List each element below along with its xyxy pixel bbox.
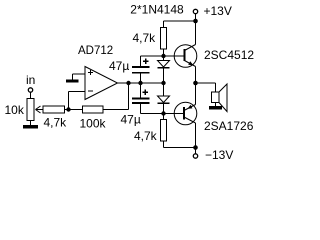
svg-text:2*1N4148: 2*1N4148 xyxy=(130,3,184,17)
diode D1 1N4148 xyxy=(163,56,165,61)
wire inverting node xyxy=(65,109,83,111)
terminal -13V xyxy=(193,154,197,158)
wire cap C1 top link xyxy=(140,56,142,67)
node upper bias xyxy=(161,54,165,58)
svg-text:47µ: 47µ xyxy=(121,113,141,127)
svg-text:in: in xyxy=(26,73,35,87)
wire feedback xyxy=(103,83,129,110)
svg-text:10k: 10k xyxy=(5,103,25,117)
svg-text:2SA1726: 2SA1726 xyxy=(204,119,254,133)
op-amp plus marker xyxy=(88,70,93,75)
svg-text:4,7k: 4,7k xyxy=(133,31,157,45)
wire speaker to ground xyxy=(215,103,217,107)
svg-text:100k: 100k xyxy=(80,117,107,131)
node diode midpoint xyxy=(161,81,165,85)
svg-text:AD712: AD712 xyxy=(78,45,113,57)
wire input stub xyxy=(30,92,32,98)
op-amp minus marker xyxy=(88,90,93,92)
node capacitor tap xyxy=(138,81,142,85)
wire cap C2 top lead xyxy=(140,83,142,99)
transistor Q1 2SC4512 NPN xyxy=(174,45,197,68)
resistor 4,7k (input) xyxy=(43,106,65,113)
svg-text:47µ: 47µ xyxy=(109,59,129,73)
wire pot to ground xyxy=(30,121,32,126)
node output emitters junction xyxy=(193,81,198,86)
wire upper base line xyxy=(141,55,185,57)
svg-text:2SC4512: 2SC4512 xyxy=(204,48,254,62)
node feedback tap xyxy=(126,81,130,85)
capacitor C1 polarity plus xyxy=(143,59,148,64)
node inverting input junction xyxy=(66,107,70,111)
potentiometer wiper arrow xyxy=(36,109,43,111)
resistor 100k (feedback) xyxy=(83,106,104,113)
wire Q1 collector xyxy=(195,21,197,45)
svg-text:4,7k: 4,7k xyxy=(134,129,158,143)
wire op-amp output line xyxy=(118,82,164,84)
svg-text:+13V: +13V xyxy=(204,4,232,18)
op-amp U1 AD712 triangle xyxy=(85,67,118,100)
resistor 4,7k upper bias xyxy=(161,28,167,50)
ground (op-amp non-inverting input) xyxy=(67,80,79,82)
resistor 4,7k lower bias xyxy=(161,120,167,142)
ground (pot) xyxy=(24,126,38,128)
wire Q1 emitter to output node xyxy=(195,67,197,84)
wire Q2 emitter xyxy=(195,83,197,105)
input terminal (in) xyxy=(28,88,32,92)
wire output to speaker xyxy=(196,83,216,92)
ground (speaker) xyxy=(210,107,222,110)
node lower bias xyxy=(161,111,165,115)
wire cap C2 bottom lead xyxy=(141,103,185,114)
transistor Q2 2SA1726 PNP xyxy=(174,102,197,125)
wire +13V rail xyxy=(164,20,196,22)
potentiometer 10k body xyxy=(27,99,34,121)
diode D2 1N4148 xyxy=(163,83,165,96)
node +13V rail junction xyxy=(193,19,198,24)
wire -13V rail xyxy=(164,147,196,149)
speaker LS1 xyxy=(212,92,220,103)
wire Q2 collector xyxy=(195,123,197,148)
node -13V rail junction xyxy=(193,145,198,150)
wire cap C1 bottom lead xyxy=(140,73,142,83)
capacitor C2 polarity plus xyxy=(143,90,148,95)
wire non-inverting input xyxy=(73,74,86,80)
wire riser to inverting input xyxy=(69,92,86,110)
svg-text:−13V: −13V xyxy=(205,148,233,162)
svg-text:4,7k: 4,7k xyxy=(44,116,68,130)
capacitor C1 47u plates xyxy=(132,66,150,68)
terminal +13V xyxy=(193,9,197,13)
capacitor C2 47u plates xyxy=(132,98,150,100)
